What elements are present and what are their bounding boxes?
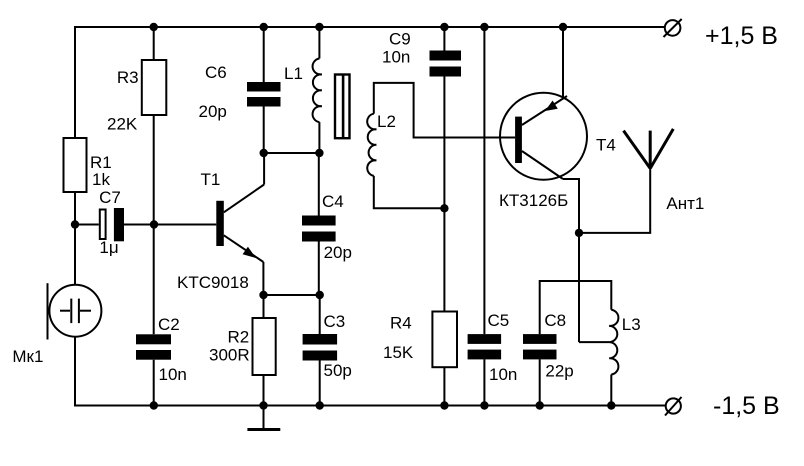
wire C8/L3 top: [540, 281, 612, 406]
node T1e-R2: [259, 291, 267, 299]
svg-text:R4: R4: [390, 314, 412, 333]
transistor T4: [500, 93, 587, 180]
terminal +1.5V: [664, 19, 682, 37]
svg-text:R3: R3: [117, 68, 139, 87]
capacitor C6: [247, 82, 281, 107]
node rail-C9: [440, 23, 448, 31]
svg-text:22p: 22p: [545, 361, 573, 380]
resistor R1: [64, 138, 87, 192]
node C6-T1c: [260, 149, 268, 157]
node L1-C4: [315, 149, 323, 157]
wire base y=224.5: [75, 224, 216, 226]
capacitor C3: [303, 334, 338, 361]
svg-text:1μ: 1μ: [99, 238, 118, 257]
svg-text:Ант1: Ант1: [666, 194, 704, 213]
svg-text:C7: C7: [99, 188, 121, 207]
wire left branch vertical x=75: [74, 192, 76, 285]
crystal/core ZQ: [335, 75, 350, 139]
svg-text:C2: C2: [158, 315, 180, 334]
wire R3/C2 branch vertical x=153.7: [153, 27, 155, 406]
wire C3 leads: [319, 295, 321, 406]
capacitor C4: [302, 216, 336, 242]
wire R2 leads: [263, 295, 265, 406]
capacitor C5: [468, 334, 502, 359]
svg-text:КТ3126Б: КТ3126Б: [499, 191, 568, 210]
node rail-L1: [315, 23, 323, 31]
svg-text:KTC9018: KTC9018: [177, 273, 249, 292]
svg-text:10n: 10n: [382, 48, 410, 67]
inductor L2: [367, 114, 376, 176]
microphone Mk1: [48, 283, 102, 339]
svg-text:1k: 1k: [92, 170, 110, 189]
svg-text:50p: 50p: [324, 361, 352, 380]
wire top rail +1,5V: [75, 27, 665, 138]
wire L2 top jog: [374, 83, 515, 138]
wire emitter node y=295: [264, 294, 320, 296]
node rail-T4e: [559, 23, 567, 31]
node gnd-C3: [316, 401, 324, 409]
svg-text:15K: 15K: [383, 343, 414, 362]
svg-text:10n: 10n: [159, 365, 187, 384]
svg-text:R2: R2: [228, 328, 250, 347]
terminal -1.5V: [665, 397, 682, 416]
svg-text:-1,5 В: -1,5 В: [713, 392, 780, 420]
wire C9 branch vertical x=444.4: [443, 27, 445, 406]
node rail-C5: [480, 23, 488, 31]
wire T4 emitter feed x=562: [562, 27, 564, 99]
svg-text:10n: 10n: [489, 365, 517, 384]
node ant-T4c: [575, 229, 583, 237]
svg-text:C4: C4: [322, 192, 344, 211]
svg-text:L3: L3: [622, 315, 641, 334]
antenna Ant1: [624, 129, 674, 169]
node gnd-R2: [259, 401, 267, 409]
wire C5 branch vertical x=484.4: [483, 27, 485, 406]
node rail-C6: [260, 23, 268, 31]
svg-text:20p: 20p: [324, 243, 352, 262]
wire C4 leads: [318, 153, 320, 295]
wire L2 bottom jog: [374, 176, 445, 208]
node rail-R3: [150, 23, 158, 31]
node R1-C7: [71, 220, 79, 228]
node gnd-R4: [440, 401, 448, 409]
capacitor C2: [136, 334, 171, 359]
svg-text:Мк1: Мк1: [12, 347, 43, 366]
wire bottom rail -1,5V: [75, 337, 666, 406]
wire C6 branch vertical x=263.7: [263, 27, 265, 153]
transistor T1: [216, 153, 264, 295]
wire T4 collector jog: [563, 179, 579, 342]
svg-text:20p: 20p: [199, 102, 227, 121]
ground: [247, 406, 280, 430]
capacitor C8: [523, 334, 557, 359]
resistor R4: [432, 312, 457, 368]
wire antenna feed: [579, 168, 650, 233]
svg-text:L2: L2: [377, 112, 396, 131]
svg-text:C8: C8: [544, 311, 566, 330]
svg-text:L1: L1: [284, 64, 303, 83]
wire node B1 horizontal y=153: [264, 152, 320, 154]
inductor L1: [313, 59, 322, 123]
wire L3 tap: [579, 341, 609, 343]
resistor R3: [142, 60, 167, 115]
node gnd-C5: [480, 401, 488, 409]
svg-text:C3: C3: [324, 312, 346, 331]
inductor L3: [609, 310, 618, 375]
node gnd-C2: [150, 401, 158, 409]
svg-text:C6: C6: [205, 63, 227, 82]
svg-text:C9: C9: [389, 30, 411, 49]
svg-text:C5: C5: [488, 311, 510, 330]
capacitor C9: [430, 51, 462, 77]
svg-text:22K: 22K: [107, 115, 138, 134]
svg-text:T1: T1: [201, 170, 221, 189]
node base-R3: [150, 220, 158, 228]
svg-text:+1,5 В: +1,5 В: [705, 22, 778, 50]
svg-text:300R: 300R: [209, 346, 250, 365]
node gnd-L3: [607, 401, 615, 409]
svg-text:T4: T4: [596, 136, 616, 155]
wire L1 branch vertical x=319: [318, 27, 320, 153]
resistor R2: [253, 318, 276, 375]
capacitor C7 electrolytic: [100, 208, 124, 241]
node C9-L2: [440, 204, 448, 212]
node C4-C3: [316, 291, 324, 299]
node gnd-C8: [536, 401, 544, 409]
